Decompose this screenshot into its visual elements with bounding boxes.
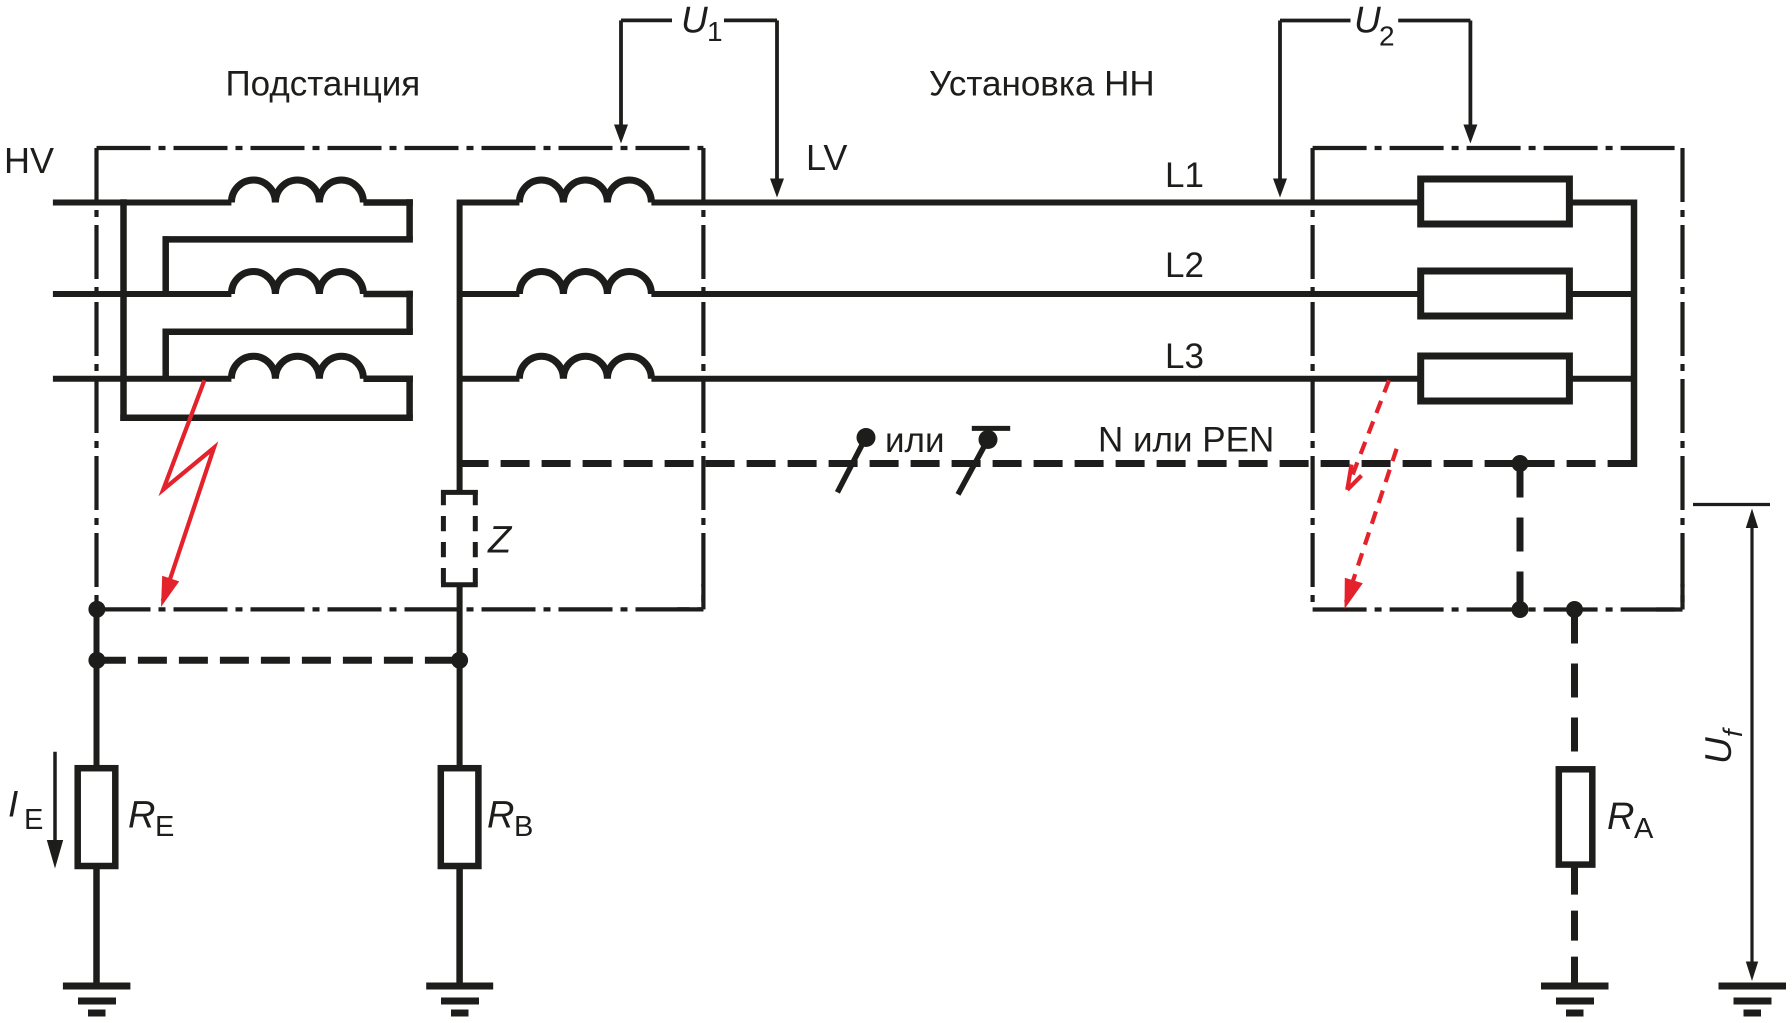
wire HV phase 1 [53, 200, 232, 206]
svg-text:Подстанция: Подстанция [226, 65, 421, 104]
ground RB [426, 986, 493, 1013]
svg-text:L3: L3 [1165, 337, 1204, 376]
svg-text:1: 1 [707, 16, 723, 47]
wire HV phase 3 [53, 376, 232, 382]
Uf arrowhead up [1746, 509, 1758, 529]
wire HV phase 2 [53, 291, 232, 297]
wire load L1 to bus [1569, 200, 1637, 206]
U1 arrowhead left [614, 125, 628, 144]
Uf dimension arrow line [1750, 526, 1753, 963]
svg-text:I: I [8, 784, 18, 825]
U2 arrowhead left [1273, 179, 1287, 198]
svg-text:R: R [128, 795, 155, 837]
switch 2 top bar [972, 426, 1010, 431]
wire LV phase 2 (star point to coil) [460, 291, 520, 297]
wire neutral below Z [457, 585, 463, 769]
load resistor on L2 [1421, 271, 1570, 316]
RA conductor upper (dashed) [1571, 610, 1578, 770]
node RA tap [1566, 601, 1583, 618]
load resistor on L1 [1421, 179, 1570, 224]
N or PEN conductor (dashed) [460, 460, 1637, 467]
node earth bond left [88, 652, 105, 669]
earth bonding conductor (dashed) [97, 657, 460, 664]
Uf arrowhead down [1746, 962, 1758, 982]
wire load L3 to bus [1569, 376, 1637, 382]
node PE at enclosure [1512, 601, 1529, 618]
resistor RA [1559, 769, 1593, 864]
switch 1 blade [837, 441, 864, 492]
U1 arrowhead right [770, 179, 784, 198]
ground Uf [1719, 986, 1787, 1013]
svg-text:Установка НН: Установка НН [929, 65, 1155, 104]
U2 arrowhead right [1463, 125, 1477, 144]
fault bolt at installation (dashed red) [1346, 380, 1397, 602]
node N to PE drop [1512, 455, 1529, 472]
fault bolt at substation (solid red) [163, 380, 214, 601]
substation enclosure border (dash-dot box) [97, 148, 704, 609]
wire LV phase 3 (star point to coil) [460, 376, 520, 382]
load common bus [1631, 200, 1638, 468]
U1 measurement bracket [621, 20, 777, 180]
wire load L2 to bus [1569, 291, 1637, 297]
svg-text:E: E [24, 804, 43, 836]
svg-text:U: U [1354, 0, 1381, 41]
svg-text:или: или [885, 421, 945, 460]
wire RB to ground [456, 866, 463, 984]
svg-text:L2: L2 [1165, 246, 1204, 285]
U2 measurement bracket [1280, 21, 1470, 181]
earthing conductor RE (vertical) [94, 609, 100, 768]
switch 1 dot [857, 428, 876, 447]
wire line L3 [651, 376, 1420, 382]
Uf reference tick [1693, 503, 1770, 506]
svg-text:R: R [1607, 796, 1634, 838]
RA conductor lower (dashed) [1571, 865, 1578, 984]
LV winding coil 3 [519, 356, 651, 379]
svg-text:U: U [1698, 737, 1739, 764]
wire line L2 [651, 291, 1420, 297]
wire line L1 [651, 200, 1420, 206]
HV winding coil 3 [231, 356, 363, 379]
switch 2 blade [958, 443, 986, 494]
LV winding coil 2 [519, 272, 651, 295]
wire RE to ground [93, 866, 100, 984]
svg-text:B: B [514, 811, 533, 843]
LV star point bus [457, 200, 463, 493]
substation enclosure bottom-right corner stubs [677, 584, 703, 609]
label Uf (rotated) [1698, 727, 1748, 764]
LV installation enclosure border (dash-dot box) [1313, 148, 1683, 610]
delta connection wires [120, 199, 413, 421]
PE drop conductor (dashed) [1517, 464, 1524, 610]
svg-text:R: R [487, 795, 514, 837]
svg-text:N или PEN: N или PEN [1098, 421, 1274, 460]
svg-text:L1: L1 [1165, 156, 1204, 195]
load resistor on L3 [1421, 356, 1570, 401]
svg-text:2: 2 [1379, 21, 1395, 52]
switch 2 dot [979, 430, 998, 449]
ground RE [63, 986, 130, 1013]
svg-text:Z: Z [487, 519, 513, 561]
HV winding coil 2 [231, 272, 363, 295]
impedance Z box (dashed) [441, 490, 478, 587]
svg-text:LV: LV [806, 137, 847, 178]
svg-text:A: A [1634, 813, 1654, 845]
wire LV phase 1 (star point to coil) [460, 200, 520, 206]
node substation earth corner [88, 601, 105, 618]
ground RA [1541, 986, 1609, 1013]
node earth bond right [451, 652, 468, 669]
svg-text:HV: HV [4, 140, 54, 181]
IE current arrow [53, 752, 57, 842]
HV winding coil 1 [231, 180, 363, 203]
svg-text:E: E [155, 811, 174, 843]
resistor RB [441, 768, 479, 866]
svg-text:U: U [681, 0, 708, 41]
LV winding coil 1 [519, 180, 651, 203]
LV enclosure bottom-right corner stubs [1656, 584, 1683, 610]
resistor RE [78, 768, 116, 866]
